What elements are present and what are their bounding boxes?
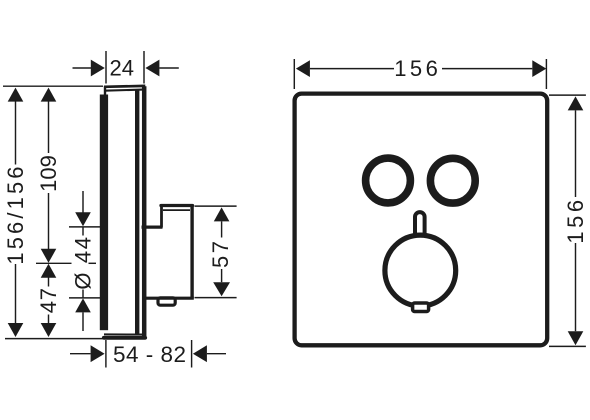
front view: right-156 top extension [549,94,586,96]
svg-text:54 - 82: 54 - 82 [113,342,187,367]
dimension 24 left extension [105,51,107,84]
front view: top-156 right extension [545,59,547,89]
dimension d44 arrow up [75,298,91,312]
front view: right select button [430,158,475,203]
side view: pin inner line [163,209,190,211]
svg-text:109: 109 [36,155,61,192]
side view: knob front face [190,205,193,299]
dimension d44 lower shaft [82,312,84,331]
dimension 109 arrow down [41,249,57,263]
dimension 109 arrow up [41,88,57,102]
svg-text:24: 24 [110,55,134,80]
dimension 24 right arrow [145,60,159,77]
side view: plate top-left corner [104,86,106,96]
front view: top-156 right arrow [532,60,546,77]
svg-text:156: 156 [394,56,441,81]
dimension 156/156 line [15,101,17,165]
dimension 47 arrow down [41,323,57,337]
svg-text:47: 47 [36,287,61,313]
side view: plate front face line [135,90,139,335]
dimension d44 top extension [69,226,100,228]
dimension 47 line [48,278,50,287]
front view: thermostat knob ring [385,235,456,306]
front view: right-156 arrow up [568,96,584,110]
dimension d44 bottom extension [69,297,105,299]
dimension 57 arrow up [214,207,230,221]
dimension 24 right shaft [159,67,178,69]
svg-text:57: 57 [208,238,233,267]
front view: right-156 arrow down [568,331,584,345]
svg-text:156: 156 [563,196,588,243]
front view: top-156 line [310,68,394,70]
dimension 57 arrow down [213,282,230,296]
dimension 24 left shaft [73,67,92,69]
front view: left select button [366,158,411,203]
side view: plate bottom edge inner [104,333,143,335]
dimension 24 right extension [143,51,145,84]
dimension 156/156 arrow up [8,88,24,102]
side view: mounting tab (side) [158,298,175,305]
dimension d44 upper shaft [82,191,84,213]
dimension 57 top extension [195,205,237,207]
dimension 54-82 right shaft [207,353,226,355]
dimension 54-82 left shaft [70,353,91,355]
dimension 54-82 left arrow [91,345,105,362]
dimension 57 bottom extension [195,297,237,299]
dimension d44 arrow down [75,212,91,226]
front view: square plate [295,94,548,346]
front view: top-156 left extension [293,59,295,89]
side view: center axis line [36,262,72,264]
side view: knob step line [142,226,163,229]
side view: pin left edge [160,205,163,228]
dimension 24 left arrow [91,60,105,77]
front view: knob index pin [415,212,425,237]
svg-text:156/156: 156/156 [3,163,28,264]
front view: top-156 left arrow [296,60,310,77]
side view: bottom extension line [5,338,110,340]
dimension 54-82 left extension [105,340,107,368]
front view: right-156 bottom extension [549,345,586,347]
side view: plate bottom edge outer [104,336,145,340]
dimension 54-82 right extension [191,340,193,368]
dimension 156/156 arrow down [8,323,24,337]
dimension 47 arrow up [41,264,57,278]
dimension 57 line [221,221,223,237]
side view: top extension line [3,85,103,87]
side view: knob bottom edge [143,297,194,300]
side view: plate top edge outer [104,85,145,89]
dimension 54-82 right arrow [193,345,207,362]
side view: pin top edge [161,204,193,207]
side view: plate top edge inner [104,90,142,91]
side view: plate outer front line [142,86,147,339]
svg-text:Ø 44: Ø 44 [70,235,95,289]
dimension 109 line [48,101,50,154]
dimension d44 line segments [82,228,84,236]
side view: wall flange (filled bar) [100,95,108,331]
front view: bottom tab [413,303,429,312]
front view: right-156 line [575,110,577,197]
